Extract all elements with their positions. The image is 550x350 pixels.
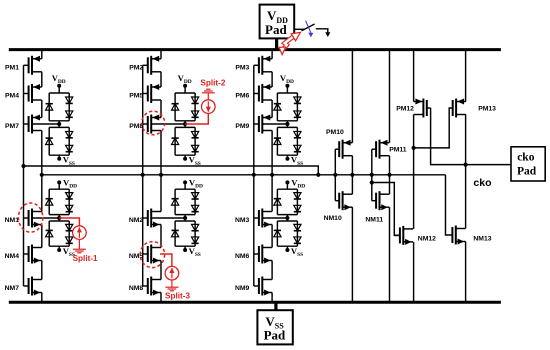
wire column 1 source to VDD rail	[41, 50, 43, 59]
node NM3 bias node	[285, 216, 289, 220]
transistor PM3	[235, 56, 272, 75]
wire PM10 NM10 gate vertical	[334, 149, 336, 201]
VSS pad	[257, 310, 292, 344]
wire NM3 gate bias line	[262, 217, 287, 219]
wire column 1 NMOS chain links	[41, 225, 43, 248]
svg-text:NM11: NM11	[365, 217, 383, 224]
node PM9 bias node	[285, 122, 289, 126]
transistor NM12	[400, 226, 436, 245]
wire Split-1 to ground	[78, 239, 80, 249]
transistor NM4	[5, 245, 42, 264]
junction net B tap below bus	[370, 180, 374, 184]
wire PM12 source to rail	[413, 50, 415, 102]
junction cko node on PM13 drain	[464, 163, 468, 167]
wire net B to NM12 gate	[372, 183, 400, 236]
svg-text:Split-1: Split-1	[73, 254, 98, 263]
svg-text:PM2: PM2	[129, 64, 143, 71]
antenna symbol Split-2	[202, 92, 215, 94]
wire column 2 NMOS source to VSS rail	[160, 293, 162, 303]
transistor NM10	[324, 191, 353, 222]
svg-text:NM7: NM7	[5, 285, 20, 292]
red dashed circle highlight on NM5	[140, 242, 164, 268]
red dashed circle highlight on NM1	[18, 203, 42, 232]
wire PM9 gate bias line	[262, 123, 287, 125]
wire column 2 source to VDD rail	[160, 50, 162, 59]
diode string network column 3 PMOS side	[274, 84, 301, 161]
wire Split-2 red connection	[185, 113, 208, 124]
ESD switch blade	[302, 24, 315, 31]
wire column 3 NMOS drain from lower bus	[271, 175, 273, 212]
wire PM11 NM11 gate vertical	[371, 149, 373, 201]
svg-text:cko: cko	[517, 152, 535, 164]
svg-text:NM2: NM2	[129, 217, 144, 224]
wire NM1 gate bias line	[32, 217, 59, 219]
transistor NM5	[129, 245, 161, 264]
wire PM10 source to rail	[351, 50, 353, 143]
wire column 1 NMOS drain from lower bus	[41, 175, 43, 212]
junction inverter2 output on lower bus	[387, 173, 391, 177]
wire NM12 source to rail	[413, 242, 415, 302]
transistor PM6	[235, 84, 272, 103]
wire PM13 drain to NM13 drain	[465, 115, 467, 229]
transistor NM7	[5, 277, 42, 296]
svg-text:PM6: PM6	[235, 93, 249, 100]
wire Split-3 to ground	[171, 280, 173, 288]
current source Split-1	[73, 226, 87, 240]
junction column 1 drain on lower bus	[40, 173, 44, 177]
wire column 3 PMOS drain to lower bus	[271, 131, 273, 175]
transistor PM7	[5, 115, 42, 134]
svg-text:Pad: Pad	[517, 165, 537, 177]
wire PM11 drain to NM11 drain	[389, 156, 391, 195]
wire column 3 gate bus	[253, 65, 255, 286]
wire PM7 gate bias line	[32, 123, 59, 125]
svg-text:NM1: NM1	[5, 217, 20, 224]
wire Split-2 to antenna	[207, 93, 209, 100]
ground symbol Split-3	[165, 286, 178, 288]
ESD switch wire from VDD pad	[294, 28, 304, 30]
transistor NM6	[235, 245, 272, 264]
diode string network column 3 NMOS side	[274, 180, 301, 252]
junction PM12 drain with PM13 gate line	[412, 146, 416, 150]
transistor NM3	[235, 209, 272, 228]
wire VSS pad stem	[274, 302, 277, 310]
wire Split-1 red connection	[59, 218, 79, 226]
wire column 1 PMOS chain links	[41, 72, 43, 87]
junction column 3 drain on lower bus	[270, 173, 274, 177]
red dashed circle highlight on PM8	[142, 111, 165, 135]
wire Split-3 red connection	[160, 254, 172, 267]
svg-text:PM11: PM11	[389, 147, 407, 154]
transistor PM9	[235, 115, 272, 134]
svg-text:PM1: PM1	[5, 64, 19, 71]
diode string network column 1 PMOS side	[46, 84, 73, 161]
node NM2 bias node	[183, 216, 187, 220]
ESD lightning bolt strike symbol	[279, 32, 300, 54]
transistor NM1	[5, 209, 42, 228]
ESD blue discharge arrow	[306, 21, 314, 38]
wire column 3 PMOS chain links	[271, 72, 273, 87]
ESD bent arrow to ground	[316, 29, 331, 37]
svg-text:PM5: PM5	[129, 93, 143, 100]
wire column 2 gate bus	[142, 65, 144, 286]
wire column 2 PMOS drain to lower bus	[160, 131, 162, 175]
svg-text:Split-2: Split-2	[200, 78, 225, 87]
wire column 3 NMOS source to VSS rail	[271, 293, 273, 303]
wire VSS bottom power rail	[9, 301, 501, 304]
node NM1 bias node	[57, 216, 61, 220]
transistor NM13	[452, 226, 491, 245]
svg-text:NM6: NM6	[235, 253, 250, 260]
diode string network column 2 NMOS side	[172, 180, 199, 252]
junction column 2 gate bus on lower bus	[141, 173, 145, 177]
wire PM8 gate bias line	[151, 123, 185, 125]
svg-text:NM8: NM8	[129, 285, 144, 292]
svg-text:Split-3: Split-3	[165, 291, 190, 300]
junction column 3 gate bus on lower bus	[252, 173, 256, 177]
node PM8 bias node	[183, 122, 187, 126]
svg-text:NM4: NM4	[5, 253, 20, 260]
transistor NM11	[365, 191, 389, 223]
transistor NM8	[129, 277, 161, 296]
wire column 3 NMOS chain links	[271, 225, 273, 248]
wire lower bus down to NM13 gate	[446, 175, 453, 235]
wire column 1 gate bus	[23, 65, 25, 286]
svg-text:NM13: NM13	[473, 236, 491, 243]
svg-text:Pad: Pad	[265, 22, 287, 37]
junction PM11 gate on lower bus	[370, 173, 374, 177]
wire PM11 source to rail	[389, 50, 391, 143]
svg-text:cko: cko	[473, 177, 491, 189]
svg-text:PM12: PM12	[396, 105, 414, 112]
svg-text:PM13: PM13	[478, 105, 496, 112]
node PM7 bias node	[57, 122, 61, 126]
junction column 1 gate bus on upper bus	[21, 164, 25, 168]
svg-text:NM10: NM10	[324, 215, 342, 222]
wire PM10 drain to NM10 drain	[351, 156, 353, 195]
transistor PM5	[129, 84, 161, 103]
wire VDD top power rail	[9, 48, 501, 51]
svg-text:PM4: PM4	[5, 93, 19, 100]
wire NM13 source to rail	[465, 242, 467, 303]
current source Split-2	[202, 100, 216, 114]
transistor NM9	[235, 277, 272, 296]
VDD pad	[260, 5, 295, 39]
wire column 1 PMOS drain to lower bus	[41, 131, 43, 175]
diode string network column 1 NMOS side	[46, 180, 73, 252]
wire PM12 gate to cko output line	[431, 108, 511, 165]
wire PM12 drain to NM12 drain	[413, 115, 415, 229]
junction PM10 NM10 gate on lower bus	[333, 173, 337, 177]
wire upper mid bus (node A)	[24, 166, 319, 175]
transistor PM2	[129, 56, 161, 75]
diode string network column 2 PMOS side	[172, 84, 199, 161]
svg-text:NM12: NM12	[418, 236, 436, 243]
junction upper bus joins lower bus	[316, 173, 320, 177]
wire NM10 source to rail	[351, 207, 353, 302]
wire PM12 gate lead	[427, 107, 431, 109]
wire column 3 source to VDD rail	[271, 50, 273, 59]
svg-text:PM3: PM3	[235, 64, 249, 71]
wire lower mid bus (node B)	[42, 174, 446, 176]
svg-text:PM9: PM9	[235, 123, 249, 130]
wire column 2 NMOS drain from lower bus	[160, 175, 162, 212]
transistor PM11	[372, 140, 407, 159]
svg-text:NM3: NM3	[235, 217, 250, 224]
transistor PM8	[129, 115, 161, 134]
ground symbol Split-1	[73, 248, 86, 250]
wire NM12 gate lead	[394, 234, 400, 236]
wire PM13 source to rail	[465, 50, 467, 102]
wire column 2 PMOS chain links	[160, 72, 162, 87]
junction column 2 drain on lower bus	[159, 173, 163, 177]
cko pad	[511, 147, 545, 181]
svg-text:Pad: Pad	[264, 327, 286, 342]
svg-text:PM7: PM7	[5, 123, 19, 130]
wire NM11 source to rail	[389, 207, 391, 302]
wire VDD pad stem	[275, 38, 278, 49]
transistor PM10	[326, 129, 352, 159]
current source Split-3	[165, 266, 179, 280]
transistor NM2	[129, 209, 161, 228]
transistor PM13	[453, 99, 496, 118]
junction inverter1 output on lower bus	[350, 173, 354, 177]
transistor PM12	[396, 99, 427, 118]
wire column 2 NMOS chain links	[160, 225, 162, 248]
svg-text:NM9: NM9	[235, 285, 250, 292]
transistor PM1	[5, 56, 42, 75]
transistor PM4	[5, 84, 42, 103]
wire PM13 gate cross-connection	[414, 108, 453, 148]
svg-text:PM10: PM10	[326, 129, 344, 136]
wire column 1 NMOS source to VSS rail	[41, 293, 43, 303]
wire NM2 gate bias line	[151, 217, 185, 219]
